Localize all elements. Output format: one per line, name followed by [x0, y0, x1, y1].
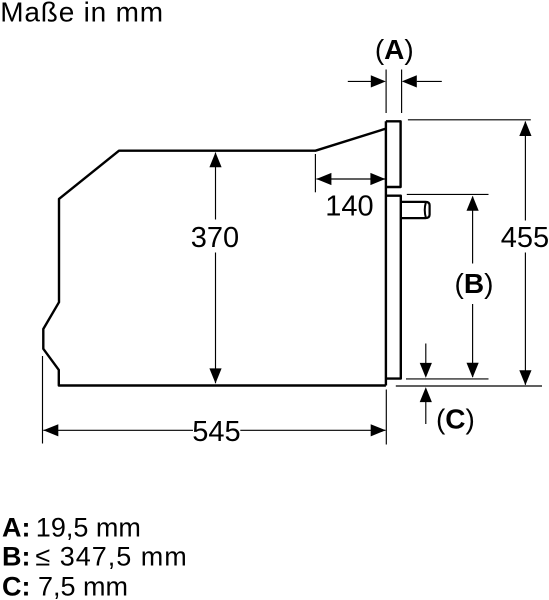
dim 140 line: [316, 178, 385, 180]
svg-text:19,5 mm: 19,5 mm: [36, 512, 141, 542]
dim 140 witness line: [314, 154, 316, 192]
front panel top strip: [386, 121, 401, 187]
dim A right witness line: [401, 70, 403, 114]
dim 140 left arrowhead: [316, 173, 331, 185]
appliance body outline: [43, 129, 386, 386]
svg-text:Maße in mm: Maße in mm: [0, 0, 164, 28]
dim 455 bottom arrowhead: [519, 370, 531, 385]
dim 455 top witness line: [408, 119, 531, 121]
svg-text:A:: A:: [2, 512, 31, 542]
dim 455 line lower segment: [524, 253, 526, 385]
dim 545 left witness line: [42, 356, 44, 444]
dim C bottom arrowhead: [420, 387, 432, 402]
dim A left arrow: [348, 80, 372, 82]
dim A right arrow: [402, 75, 417, 87]
dim 455 line upper segment: [524, 122, 526, 221]
dim 545 right arrowhead: [371, 424, 386, 436]
dim 370 top arrowhead: [209, 152, 221, 167]
dim B bottom witness line: [406, 378, 489, 380]
door handle knob: [401, 202, 430, 218]
front frame vertical line: [385, 121, 387, 385]
svg-text:455: 455: [501, 222, 549, 254]
door panel: [386, 196, 401, 379]
svg-text:370: 370: [191, 222, 239, 254]
dim 545 right witness line: [385, 390, 387, 445]
dim B bottom arrowhead: [467, 363, 479, 378]
dim 455 top arrowhead: [519, 121, 531, 136]
dim 545 left arrowhead: [43, 424, 58, 436]
svg-text:7,5 mm: 7,5 mm: [38, 571, 128, 600]
dim B top arrowhead: [467, 196, 479, 211]
dim A left witness line: [385, 70, 387, 114]
dim C bottom arrow stem: [425, 402, 427, 424]
dim 545 line right segment: [240, 429, 385, 431]
dim B line lower segment: [472, 304, 474, 377]
svg-text:≤ 347,5 mm: ≤ 347,5 mm: [35, 542, 187, 572]
dim 140 right arrowhead: [370, 173, 385, 185]
svg-text:(B): (B): [455, 268, 494, 299]
dim B top witness line: [407, 193, 489, 195]
dim 370 bottom arrowhead: [209, 368, 221, 383]
dim B line upper segment: [472, 197, 474, 264]
svg-text:545: 545: [192, 416, 240, 448]
svg-text:(A): (A): [375, 34, 414, 65]
dim C top arrowhead: [420, 363, 432, 378]
bottom extension line: [396, 385, 542, 387]
dim C top arrow stem: [425, 344, 427, 364]
svg-text:(C): (C): [436, 404, 475, 435]
svg-text:C:: C:: [2, 571, 31, 600]
svg-text:B:: B:: [2, 542, 31, 572]
svg-text:140: 140: [325, 191, 373, 223]
dim 545 line left segment: [43, 429, 193, 431]
dim 370 line upper segment: [215, 153, 217, 220]
knob end cap line: [425, 202, 426, 218]
dim 370 line lower segment: [215, 253, 217, 384]
